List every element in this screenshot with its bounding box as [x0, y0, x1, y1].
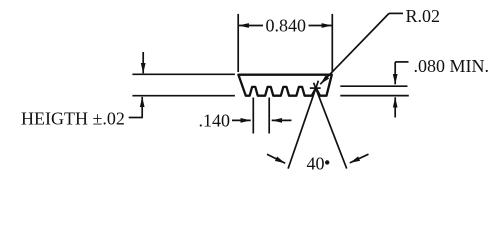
dimension HEIGTH: leader elbow	[129, 117, 143, 119]
wire: groove-depth line (right)	[340, 85, 407, 87]
angle 40: left arrow	[267, 154, 285, 163]
leader R.02: diagonal arrow line	[320, 13, 389, 84]
dimension 0.840: right extension line	[331, 14, 333, 72]
wire: belt bottom line (right)	[340, 95, 409, 97]
dimension .140: right extension line	[268, 98, 270, 134]
dimension 0.840: left extension line	[237, 14, 239, 72]
svg-text:R.02: R.02	[406, 6, 441, 26]
svg-text:HEIGTH ±.02: HEIGTH ±.02	[21, 108, 125, 128]
belt profile outline	[238, 75, 331, 96]
wire: belt bottom surface line (left)	[132, 95, 235, 97]
dimension 0.840: left dimension line with arrow	[239, 25, 263, 27]
angle 40: right arrow	[350, 154, 369, 163]
svg-text:0.840: 0.840	[265, 15, 306, 35]
dimension HEIGTH: lower arrow shaft	[141, 97, 143, 118]
dimension .140: left arrow line	[232, 119, 251, 121]
svg-text:40: 40	[307, 153, 325, 173]
svg-text:.140: .140	[199, 110, 231, 130]
dimension .140: right arrow line	[272, 119, 292, 121]
dimension HEIGTH: upper arrow shaft	[142, 52, 144, 73]
angle 40: left flank construction line	[288, 81, 318, 169]
angle 40: degree dot	[325, 160, 329, 164]
wire: belt top surface line (left)	[132, 73, 235, 75]
angle 40: right flank construction line	[314, 83, 347, 169]
leader R.02: horizontal segment	[389, 12, 403, 14]
dimension .080 MIN.: leader elbow	[395, 61, 408, 63]
dimension .080 MIN.: upper arrow shaft	[394, 62, 396, 84]
dimension .080 MIN.: lower arrow shaft	[394, 97, 396, 117]
dimension 0.840: right dimension line with arrow	[309, 25, 332, 27]
angle 40: horizontal tick at apex	[310, 87, 321, 89]
dimension .140: left extension line	[252, 98, 254, 134]
svg-text:.080 MIN.: .080 MIN.	[414, 56, 490, 76]
